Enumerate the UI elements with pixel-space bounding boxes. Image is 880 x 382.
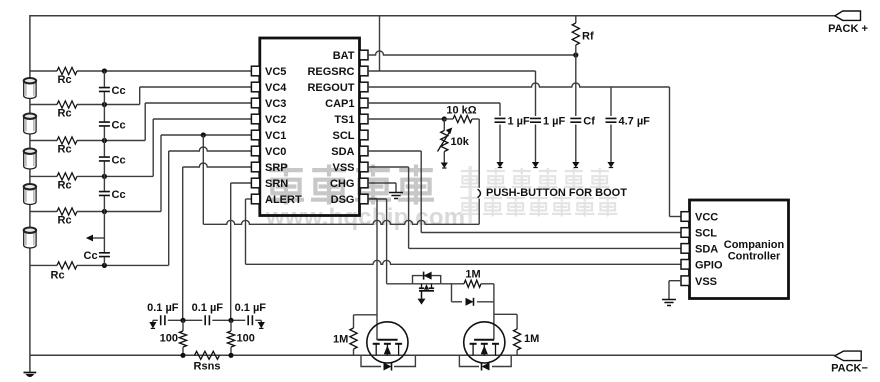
capacitor Cc5 [98, 252, 110, 257]
resistor Rc tap4 and wire to VC1 [30, 211, 57, 213]
wire DSG [368, 198, 377, 200]
op-amp U1 AFE IC box [260, 38, 360, 216]
transistor Q3 CHG fet [464, 322, 505, 363]
resistor R 1M q3 gate-source [516, 314, 518, 329]
connector PACK- [835, 351, 862, 361]
svg-text:SCL: SCL [333, 130, 355, 142]
capacitor Cf1 0.1uF [158, 315, 168, 326]
wire to Q3 gate [493, 302, 495, 340]
pin SRN [251, 178, 259, 188]
capacitor Cc2 [98, 121, 110, 126]
svg-text:VC4: VC4 [265, 82, 287, 94]
svg-text:Rc: Rc [51, 270, 65, 282]
svg-text:SCL: SCL [695, 228, 717, 240]
wire VC1 bus to push-button [202, 135, 204, 224]
svg-text:PUSH-BUTTON FOR BOOT: PUSH-BUTTON FOR BOOT [486, 187, 627, 199]
wire Cc column [103, 71, 105, 265]
wire SCL [368, 150, 421, 152]
capacitor C3 (Cf) [570, 118, 581, 122]
resistor Rc tap3 and wire to VC2 [30, 175, 57, 177]
transistor Q2 DSG fet [367, 322, 408, 363]
resistor 10kOhm [453, 115, 472, 122]
vss arrow filter right [260, 320, 262, 322]
pin ALERT [251, 194, 259, 204]
vss arrow C2 [535, 157, 537, 163]
svg-text:Rc: Rc [58, 108, 72, 120]
thermistor 10k [443, 119, 445, 131]
diode Q3 body [459, 355, 511, 366]
svg-text:Rsns: Rsns [194, 361, 221, 373]
svg-text:Rc: Rc [58, 180, 72, 192]
battery cell B2 [24, 116, 36, 134]
svg-text:Cc: Cc [84, 250, 98, 262]
pin VC2 [251, 114, 259, 124]
svg-text:10k: 10k [451, 136, 470, 148]
pin SRP [251, 162, 259, 172]
wire network mid [441, 283, 464, 285]
svg-text:VC1: VC1 [265, 130, 286, 142]
wire C1 bottom [499, 125, 501, 157]
svg-text:CAP1: CAP1 [325, 98, 354, 110]
svg-text:Controller: Controller [728, 251, 781, 263]
resistor Rc tap1 and wire to VC4 [30, 104, 57, 106]
resistor Rsns [195, 351, 220, 359]
wire SRP [183, 163, 252, 167]
battery cell B3 [24, 151, 36, 169]
wire Cf top [575, 55, 577, 116]
wire Q2 gate 1M tap [354, 314, 378, 316]
vss arrow C4 [610, 157, 612, 163]
svg-text:1 µF: 1 µF [543, 116, 566, 128]
wire PACK- rail [30, 354, 835, 356]
wire REGSRC [368, 70, 536, 72]
pin U2 SCL [681, 228, 689, 238]
battery cell B5 [24, 230, 36, 248]
capacitor C4 (4.7 µF) [606, 118, 617, 122]
pin REGOUT [360, 82, 368, 92]
capacitor Cf2 0.1uF [202, 315, 212, 326]
wire ALERT to GPIO bus [246, 198, 252, 200]
vss arrow filter left [152, 320, 154, 322]
resistor R 1M chg [464, 280, 481, 287]
diode D2 parallel [451, 284, 453, 302]
svg-text:1M: 1M [333, 334, 348, 346]
svg-text:ALERT: ALERT [265, 194, 302, 206]
pin DSG [360, 194, 368, 204]
svg-text:VC5: VC5 [265, 66, 286, 78]
pin VC0 [251, 146, 259, 156]
wire C2 bottom [535, 125, 537, 157]
svg-text:www.hqchip.com: www.hqchip.com [265, 204, 465, 231]
svg-text:SRN: SRN [265, 178, 288, 190]
pin SDA [360, 146, 368, 156]
svg-text:REGSRC: REGSRC [307, 66, 354, 78]
pin VC5 [251, 66, 259, 76]
node rail A [180, 353, 185, 358]
diode Q2 body [361, 355, 415, 366]
svg-text:VCC: VCC [695, 212, 718, 224]
node BAT-Rf junction [573, 52, 578, 57]
resistor Rc tap5 and wire to VC0 [30, 264, 57, 266]
transistor Q1 small fet [422, 284, 432, 288]
node VC1 junction [201, 132, 206, 137]
svg-text:BAT: BAT [333, 50, 355, 62]
node filter B [228, 318, 233, 323]
svg-text:CHG: CHG [330, 178, 354, 190]
wire VSS [368, 182, 396, 184]
pin U2 GPIO [681, 260, 689, 270]
svg-text:0.1 µF: 0.1 µF [192, 302, 224, 314]
wire CHG [368, 198, 387, 200]
svg-text:100: 100 [160, 333, 178, 345]
diode D1 bypass loop [413, 276, 441, 284]
svg-text:0.1 µF: 0.1 µF [147, 302, 179, 314]
capacitor Cc3 [98, 156, 110, 161]
svg-text:SRP: SRP [265, 162, 288, 174]
capacitor C2 (1 µF) [530, 118, 541, 122]
wire CAP1 [368, 102, 500, 104]
pin VC4 [251, 82, 259, 92]
svg-text:SDA: SDA [695, 244, 718, 256]
resistor Rf [575, 16, 577, 23]
wire C3 bottom [575, 125, 577, 157]
pin CAP1 [360, 98, 368, 108]
pin U2 SDA [681, 244, 689, 254]
svg-text:1 µF: 1 µF [508, 116, 531, 128]
svg-text:1M: 1M [524, 333, 539, 345]
svg-text:DSG: DSG [331, 194, 355, 206]
svg-text:TS1: TS1 [334, 114, 354, 126]
svg-text:Rc: Rc [58, 74, 72, 86]
svg-text:SDA: SDA [331, 146, 354, 158]
vss arrow C3 [575, 157, 577, 163]
wire left stack vertical [29, 78, 31, 355]
arrow marker at Cc5 [92, 237, 104, 239]
svg-text:REGOUT: REGOUT [307, 82, 354, 94]
vss arrow thermistor [443, 157, 445, 163]
resistor R 1M q2 gate-source [353, 315, 355, 328]
pin U2 VSS [681, 276, 689, 286]
node filter A [180, 318, 185, 323]
pin SCL [360, 130, 368, 140]
wire Q3 gate 1M tap [494, 313, 517, 315]
wire U2 VSS [669, 280, 681, 282]
svg-text:Companion: Companion [724, 239, 785, 251]
wire SRN [231, 182, 252, 184]
svg-text:Cc: Cc [112, 119, 126, 131]
svg-text:Cc: Cc [112, 85, 126, 97]
vss arrow C1 [499, 157, 501, 163]
battery cell B4 [24, 187, 36, 205]
svg-text:PACK +: PACK + [828, 23, 868, 35]
pin REGSRC [360, 66, 368, 76]
pin VC1 [251, 130, 259, 140]
pin TS1 [360, 114, 368, 124]
wire top rail PACK+ net [30, 16, 835, 78]
svg-text:10 kΩ: 10 kΩ [446, 105, 476, 117]
node TS1 junction [442, 116, 447, 121]
pin BAT [360, 50, 368, 60]
wire BAT [368, 51, 576, 55]
pin VSS [360, 162, 368, 172]
wire CHG to network [387, 283, 413, 285]
wire TS1 [368, 118, 444, 120]
svg-text:100: 100 [237, 333, 255, 345]
svg-text:Rc: Rc [58, 215, 72, 227]
ground VSS IC [389, 193, 403, 199]
wire REGOUT bus [368, 83, 670, 87]
wire C4 bottom [610, 125, 612, 157]
svg-text:VC3: VC3 [265, 98, 286, 110]
wire stack bottom to ground [29, 355, 31, 372]
svg-text:PACK−: PACK− [831, 363, 868, 375]
svg-text:Rc: Rc [58, 144, 72, 156]
resistor Rc tap0 and wire to VC5 [30, 70, 57, 72]
svg-text:Rf: Rf [582, 31, 594, 43]
svg-text:Cf: Cf [583, 116, 595, 128]
svg-text:VC2: VC2 [265, 114, 286, 126]
capacitor C1 (1 µF) [495, 118, 506, 122]
svg-text:VSS: VSS [332, 162, 354, 174]
svg-text:GPIO: GPIO [695, 260, 723, 272]
capacitor Cc1 [98, 87, 110, 92]
ground stack bottom [24, 372, 37, 374]
switch push-button [478, 119, 480, 188]
connector PACK+ [835, 11, 861, 20]
svg-text:0.1 µF: 0.1 µF [235, 302, 267, 314]
companion controller U2 box [690, 200, 789, 299]
resistor R 100 left [182, 320, 184, 331]
capacitor Cc4 [98, 191, 110, 196]
wire SDA [368, 166, 409, 168]
node rail B [228, 353, 233, 358]
resistor R 100 right [230, 320, 232, 331]
svg-text:1M: 1M [465, 269, 480, 281]
pin U2 VCC [681, 212, 689, 222]
svg-text:VC0: VC0 [265, 146, 286, 158]
wire 0.1uF filter row [153, 319, 261, 321]
capacitor Cf3 0.1uF [245, 315, 255, 326]
wire REGSRC to top rail [379, 16, 381, 71]
ground U2 VSS [662, 300, 676, 306]
resistor Rc tap2 and wire to VC3 [30, 140, 57, 142]
wire 4.7uF top [610, 87, 612, 116]
svg-text:Cc: Cc [112, 154, 126, 166]
pin VC3 [251, 98, 259, 108]
watermark (decorative) [269, 165, 303, 177]
svg-text:Cc: Cc [112, 189, 126, 201]
svg-text:4.7 µF: 4.7 µF [619, 116, 651, 128]
battery cell B1 [24, 81, 36, 99]
pin CHG [360, 178, 368, 188]
svg-text:VSS: VSS [695, 276, 717, 288]
